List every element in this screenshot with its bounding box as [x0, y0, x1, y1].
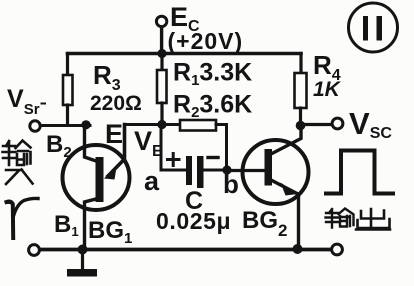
transistor BG2 circle — [243, 140, 309, 204]
svg-text:VSC: VSC — [349, 106, 392, 142]
junction ground node B1 — [78, 245, 88, 255]
wire R1 bottom lead — [160, 103, 163, 125]
junction node VE — [157, 120, 166, 129]
emitter arrowhead BG2 — [281, 183, 298, 196]
junction rail / R1 / EC — [157, 49, 166, 58]
label shu (input char 1) — [3, 141, 31, 166]
label plus — [168, 154, 180, 166]
transistor BG1 base bar — [96, 157, 104, 202]
wire top supply rail — [68, 52, 302, 56]
svg-text:B2: B2 — [46, 131, 72, 161]
svg-text:B1: B1 — [54, 211, 79, 239]
emitter arrowhead BG1 — [104, 165, 117, 180]
svg-text:a: a — [144, 166, 160, 196]
resistor R1 — [157, 70, 167, 103]
resistor R4 — [295, 73, 307, 108]
ground terminal bottom-right — [332, 244, 343, 255]
output terminal VSC — [332, 118, 343, 129]
wire E corner to VE node — [125, 123, 163, 126]
svg-text:(+20V): (+20V) — [168, 28, 244, 54]
label minus — [208, 156, 218, 159]
wire VE down to capacitor — [161, 125, 186, 171]
svg-text:0.025μ: 0.025μ — [156, 208, 231, 234]
junction ground node BG2 emitter — [293, 244, 303, 254]
wire B2 lead — [85, 125, 97, 162]
svg-text:VSr: VSr — [7, 85, 40, 118]
label chu (output char 2) — [356, 209, 390, 230]
junction node B2 — [81, 120, 90, 129]
capacitor C left plate — [186, 156, 192, 185]
svg-text:R13.3K: R13.3K — [173, 59, 252, 90]
wire BG2 emitter — [271, 180, 299, 249]
svg-text:E: E — [105, 119, 123, 149]
figure badge 11 — [349, 3, 398, 52]
wire rail drop to R1 — [160, 54, 163, 71]
input terminal Vsr — [30, 121, 40, 131]
ground terminal bottom-left — [29, 245, 40, 256]
input waveform spike — [7, 202, 14, 238]
wire BG2 collector — [271, 126, 301, 154]
wire bottom ground rail — [40, 248, 331, 252]
svg-text:R3: R3 — [93, 60, 121, 94]
resistor R2 — [180, 120, 216, 131]
svg-text:VE: VE — [134, 126, 163, 160]
wire collector node to VSC terminal — [305, 123, 331, 126]
svg-text:BG2: BG2 — [242, 207, 287, 240]
svg-text:b: b — [223, 169, 239, 199]
label shu (output char 1) — [326, 209, 354, 228]
ground symbol bar — [67, 269, 97, 277]
junction node b — [222, 165, 231, 174]
supply terminal EC — [156, 16, 166, 26]
wire Vsr to B2 node — [41, 124, 90, 127]
wire rail left drop to R3 — [66, 54, 69, 76]
svg-text:220Ω: 220Ω — [90, 92, 142, 115]
wire E lead with arrow — [108, 125, 125, 177]
wire B1 lead — [85, 199, 97, 249]
wire EC lead down to rail — [160, 27, 163, 52]
wire R3 bottom lead — [66, 105, 69, 125]
ground symbol stub — [81, 252, 84, 269]
svg-text:R23.6K: R23.6K — [173, 91, 252, 122]
svg-text:BG1: BG1 — [88, 217, 132, 247]
wire rail right drop to R4 — [299, 54, 302, 74]
label ru (input char 2) — [6, 170, 33, 185]
transistor BG2 base bar — [265, 149, 273, 186]
tick after Vsr label — [42, 103, 46, 105]
wire node b to BG2 base — [227, 169, 265, 172]
capacitor C right plate — [197, 156, 204, 188]
junction collector node — [296, 121, 306, 131]
wire R2 left lead — [162, 123, 180, 126]
resistor R3 — [63, 75, 73, 105]
wire capacitor right to node b — [203, 169, 227, 172]
output waveform pulse — [326, 151, 393, 194]
svg-text:1K: 1K — [313, 78, 342, 101]
wire R4 bottom lead — [299, 108, 302, 125]
wire R2 right lead down to node b — [216, 125, 227, 171]
transistor BG1 (UJT) circle — [63, 145, 130, 210]
